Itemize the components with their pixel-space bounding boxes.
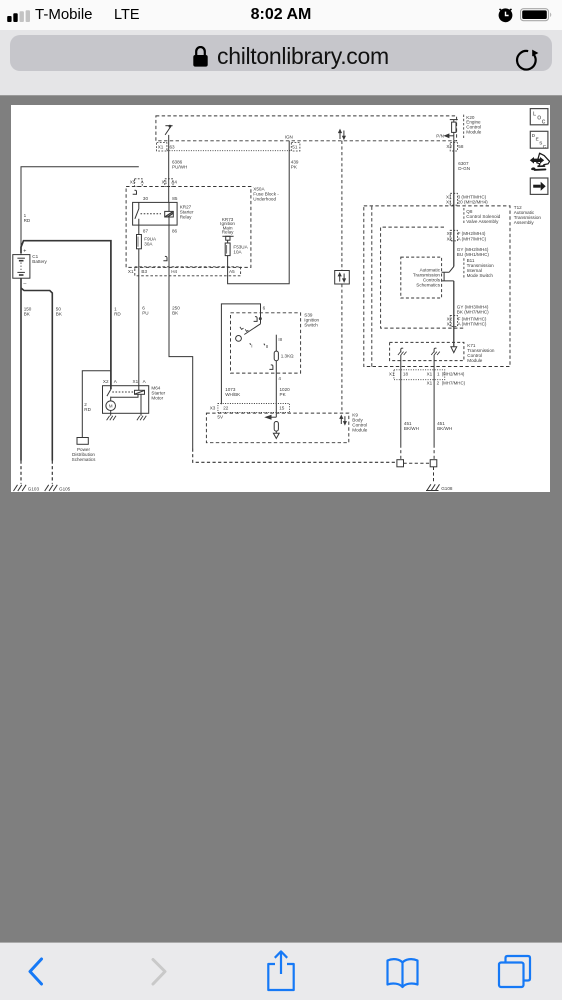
svg-text:G105: G105 — [59, 487, 71, 492]
dashed wire splice to ground G108 — [433, 467, 435, 482]
svg-text:Battery: Battery — [32, 259, 47, 264]
wire 451 BK/WH left — [400, 355, 402, 445]
svg-text:X1: X1 — [446, 194, 452, 199]
svg-text:Schematics: Schematics — [416, 283, 440, 288]
svg-text:4: 4 — [278, 376, 281, 381]
BCM signal arrow on 1020 PK — [266, 415, 277, 419]
svg-text:Mode Switch: Mode Switch — [467, 273, 494, 278]
fuse F53UA — [225, 240, 230, 255]
serial data arrows in junction box — [338, 273, 345, 282]
labels connector X1 18 X1 1 2 — [389, 371, 466, 385]
label S39 Ignition Switch — [304, 313, 319, 328]
svg-text:RD: RD — [84, 407, 91, 412]
content — [0, 0, 562, 1]
ground G108 — [426, 484, 440, 490]
svg-text:H4: H4 — [171, 269, 177, 274]
svg-text:Relay: Relay — [180, 214, 192, 219]
svg-text:63: 63 — [170, 144, 176, 149]
mode switch B11 — [442, 267, 454, 281]
svg-text:BK: BK — [172, 311, 179, 316]
wire dashed to G105 — [51, 461, 53, 484]
label 6307 D-GN — [458, 161, 470, 171]
K71 internal ground right — [431, 348, 440, 355]
ECM internal fuse to pin 58 — [450, 120, 458, 141]
svg-text:Module: Module — [467, 358, 483, 363]
serial data junction box — [335, 271, 350, 285]
M64 solenoid contact wire — [111, 394, 138, 397]
svg-text:BK (MH7/MHC): BK (MH7/MHC) — [457, 309, 489, 314]
label 1 RD battery to starter — [114, 307, 121, 317]
svg-text:X1: X1 — [158, 144, 164, 149]
relay KR73 coil symbol — [222, 236, 233, 240]
svg-text:Motor: Motor — [151, 396, 163, 401]
svg-text:X2: X2 — [447, 236, 453, 241]
svg-text:Underhood: Underhood — [253, 196, 276, 201]
serial data arrows inside ECM — [339, 130, 346, 139]
svg-text:2: 2 — [437, 381, 440, 386]
svg-text:PU/WH: PU/WH — [172, 165, 187, 170]
svg-text:18: 18 — [403, 372, 409, 377]
wire 451 right dashed — [433, 445, 435, 460]
svg-text:5V: 5V — [217, 415, 224, 420]
svg-text:+: + — [23, 248, 26, 254]
connector pin X5:A hook — [133, 190, 137, 194]
BCM internal termination arrow — [273, 431, 279, 438]
BCM internal resistor — [274, 422, 278, 432]
relay KR27 coil pins 85 86 — [168, 202, 170, 225]
svg-text:X1: X1 — [133, 379, 139, 384]
connector pin 51 dashed box — [291, 143, 300, 151]
labels relay KR27 pins — [143, 196, 178, 234]
K71 transmission control module dashed box — [390, 342, 464, 360]
connector strip below K71 dotted — [394, 370, 445, 380]
svg-text:F (MH2/MH4): F (MH2/MH4) — [458, 231, 486, 236]
svg-text:BK: BK — [56, 312, 63, 317]
labels connector X2 F A lower — [447, 316, 487, 326]
connector X2 F/A upper pin dashed box — [450, 230, 457, 241]
url bar — [0, 30, 562, 96]
T12 inner boundary line — [371, 207, 373, 367]
svg-text:22: 22 — [223, 406, 229, 411]
svg-text:Module: Module — [352, 428, 368, 433]
K9 body control module dashed box — [206, 413, 348, 443]
svg-text:WH/BK: WH/BK — [225, 392, 241, 397]
labels GY BU wires — [457, 247, 490, 257]
label C1 Battery — [32, 254, 47, 264]
svg-text:G103: G103 — [28, 487, 40, 492]
svg-text:RD: RD — [114, 312, 121, 317]
wire 1073 WH/BK BCM to S39 pin 6 — [221, 304, 260, 404]
svg-text:II: II — [266, 344, 269, 349]
P/N signal arrow — [445, 134, 454, 137]
svg-text:IGN: IGN — [285, 135, 293, 140]
S39 pin 4 hook — [269, 365, 273, 370]
connector X5 A pin dashed box — [135, 179, 143, 187]
M64 dashed link — [112, 391, 134, 393]
svg-text:A (MH7/MHC): A (MH7/MHC) — [458, 236, 487, 241]
S39 switch blade — [244, 324, 260, 335]
label 6386 PU/WH — [172, 160, 187, 170]
viewer trace icon — [530, 153, 550, 170]
S39 switch rotor circle — [236, 336, 242, 342]
svg-text:Relay: Relay — [222, 230, 234, 235]
svg-text:X2: X2 — [103, 379, 109, 384]
svg-text:87: 87 — [143, 229, 149, 234]
labels connector X2 F A upper — [447, 231, 487, 241]
svg-text:A5: A5 — [229, 269, 235, 274]
viewer button DESC — [530, 131, 548, 149]
svg-text:X1: X1 — [162, 179, 168, 184]
svg-text:86: 86 — [172, 229, 178, 234]
label 50 BK — [56, 307, 63, 317]
svg-text:X1: X1 — [427, 372, 433, 377]
labels 451 BK/WH left — [404, 421, 419, 431]
svg-text:I: I — [251, 344, 252, 349]
toolbar — [0, 942, 562, 1000]
labels connector X1 63 — [158, 144, 175, 149]
connector strip X1 B3 H4 A5 — [135, 267, 241, 276]
wire 2 RD to power distribution — [82, 371, 111, 438]
svg-text:M: M — [109, 404, 113, 409]
splice box right — [430, 460, 437, 467]
svg-text:PU: PU — [142, 311, 148, 316]
label wire 1 RD battery to fuse block — [24, 213, 31, 223]
connector X1 3/20 pin dashed box — [450, 193, 457, 205]
svg-text:Schematics: Schematics — [72, 457, 96, 462]
relay KR27 coil link dashed — [141, 213, 162, 215]
K71 internal ground left — [398, 348, 407, 355]
svg-text:X2: X2 — [447, 322, 453, 327]
label 1073 WH/BK — [225, 387, 241, 397]
svg-text:BU (MH1/MHC): BU (MH1/MHC) — [457, 252, 490, 257]
connector X1 strip dotted — [167, 150, 291, 152]
labels BCM connector X3 22 15 — [210, 406, 285, 411]
off-page marker power distribution — [77, 438, 88, 445]
svg-text:1.3KΩ: 1.3KΩ — [281, 354, 294, 359]
svg-text:Switch: Switch — [304, 323, 318, 328]
T12 transmission assembly dashed box — [364, 206, 510, 367]
status bar — [0, 0, 562, 30]
svg-text:F (MHT/MHC): F (MHT/MHC) — [458, 316, 487, 321]
labels 451 BK/WH right — [437, 421, 452, 431]
svg-text:6: 6 — [263, 305, 266, 310]
svg-text:X3: X3 — [210, 406, 216, 411]
starter motor M64 box — [103, 386, 149, 414]
labels connector X2 58 — [446, 144, 463, 149]
svg-text:Module: Module — [466, 129, 482, 134]
wire 451 left dashed — [400, 445, 402, 460]
S39 position ticks — [250, 343, 265, 345]
M64 motor circle — [106, 397, 116, 411]
svg-text:1: 1 — [437, 372, 440, 377]
wire 6386 PU/WH ECM 63 to relay 85 — [168, 135, 170, 203]
BCM serial arrows — [340, 416, 346, 425]
svg-text:30: 30 — [143, 196, 149, 201]
labels starter motor pins X2 A X1 A — [103, 379, 147, 384]
label K9 Body Control Module — [352, 413, 368, 433]
S39 position chevrons — [240, 327, 249, 332]
serial data dashed wire lower — [341, 284, 343, 413]
label K71 Transmission Control Module — [467, 343, 495, 363]
svg-text:X1: X1 — [128, 269, 134, 274]
connector X2 F/A lower pin dashed box — [450, 315, 457, 326]
svg-text:10A: 10A — [233, 250, 242, 255]
svg-text:X2: X2 — [447, 316, 453, 321]
svg-text:Assembly: Assembly — [514, 220, 535, 225]
wire battery negative to ground G103 — [20, 278, 22, 460]
svg-text:X1: X1 — [389, 372, 395, 377]
label K20 Engine Control Module — [466, 115, 482, 134]
svg-text:L: L — [533, 111, 536, 117]
svg-text:G108: G108 — [441, 486, 453, 491]
relay KR27 box — [133, 202, 178, 225]
label B11 Transmission Internal Mode Switch — [467, 258, 495, 278]
labels connector X1 3 20 — [446, 194, 488, 204]
labels connector X1 A4 — [162, 179, 178, 184]
label T12 Automatic Transmission Assembly — [514, 205, 542, 225]
svg-text:A (MHT/MHC): A (MHT/MHC) — [458, 322, 487, 327]
svg-text:Valve Assembly: Valve Assembly — [466, 219, 499, 224]
label automatic transmission controls schematics — [413, 268, 441, 288]
connector X1 A4 pin dashed box — [165, 179, 173, 187]
automatic transmission controls schematics dashed box — [401, 257, 442, 298]
viewer button next arrow — [530, 178, 548, 194]
K20 label tick — [463, 115, 465, 140]
wire battery negative branch to G105 — [21, 288, 52, 461]
Q8 control solenoid valve assembly dashed box — [381, 227, 464, 328]
battery C1 — [13, 255, 30, 279]
svg-text:P/N: P/N — [436, 134, 444, 139]
label KR73 Ignition Main Relay — [220, 217, 235, 235]
svg-text:BK/WH: BK/WH — [404, 426, 419, 431]
label 439 PK — [291, 160, 299, 170]
wire 250 BK dashed to bus — [193, 449, 397, 463]
labels connector X5 A — [130, 179, 145, 184]
label 150 BK — [24, 307, 32, 317]
svg-text:BK/WH: BK/WH — [437, 426, 452, 431]
svg-text:A4: A4 — [171, 179, 177, 184]
label M64 Starter Motor — [151, 386, 165, 401]
svg-text:58: 58 — [458, 144, 464, 149]
wire resistor to pin 4 — [275, 361, 277, 418]
label 2 RD — [84, 402, 91, 412]
svg-text:15: 15 — [279, 406, 285, 411]
wire 6 PU fuse to starter solenoid — [138, 249, 140, 390]
svg-text:PK: PK — [291, 165, 298, 170]
svg-text:85: 85 — [172, 196, 178, 201]
connector X1 pin 63 dashed box — [157, 143, 167, 151]
label Q8 Control Solenoid Valve Assembly — [466, 209, 500, 224]
label 250 BK — [172, 306, 180, 316]
ground G103 — [14, 485, 27, 491]
wire battery positive to starter motor — [21, 241, 111, 390]
label F9UA 30A — [144, 236, 157, 246]
svg-text:30A: 30A — [144, 241, 153, 246]
labels GY BK wires lower — [457, 304, 489, 314]
ground below solenoid — [137, 416, 146, 421]
wire position III to resistor — [275, 335, 277, 351]
wire 439 PK ignition feed to KR73 — [228, 141, 290, 284]
svg-text:III: III — [278, 337, 282, 342]
label F53UA 10A — [233, 245, 248, 255]
svg-text:B3: B3 — [141, 269, 147, 274]
ground G105 — [45, 485, 58, 491]
hook below relay pin 86 — [163, 256, 167, 260]
svg-text:X5: X5 — [130, 179, 136, 184]
wire dashed to G103 — [20, 461, 22, 484]
serial data dashed wire upper — [341, 141, 343, 271]
wire 451 BK/WH right — [433, 355, 435, 445]
B11 label tick — [463, 258, 465, 277]
splice box left — [397, 460, 404, 467]
svg-text:20 (MH2/MH4): 20 (MH2/MH4) — [458, 200, 489, 205]
M64 contact blade — [107, 389, 111, 396]
Q8 label tick — [463, 208, 465, 224]
battery plus minus — [23, 248, 26, 286]
wire 250 BK relay 86 to ground bus — [169, 225, 193, 448]
arrow into K71 — [451, 347, 457, 353]
wire mode switch to K71 — [453, 281, 455, 347]
M64 coil to ground — [140, 394, 142, 415]
svg-text:51: 51 — [292, 144, 298, 149]
ground bus between splices — [404, 462, 431, 464]
label X50A Fuse Block Underhood — [253, 186, 279, 201]
svg-text:(MH7/MHC): (MH7/MHC) — [442, 381, 466, 386]
K20 engine control module dashed box — [156, 116, 457, 141]
fuse F9UA — [137, 225, 142, 249]
labels ignition positions I II III — [251, 337, 282, 349]
S39 ignition switch dashed box — [231, 313, 301, 373]
relay KR27 coil — [165, 211, 174, 217]
svg-text:PK: PK — [280, 392, 287, 397]
label 1020 PK — [280, 387, 291, 397]
BCM connector strip dotted — [218, 404, 290, 413]
resistor 1.3K — [274, 351, 278, 361]
M64 motor to ground — [110, 411, 112, 416]
svg-text:X1: X1 — [446, 200, 452, 205]
svg-text:RD: RD — [24, 218, 31, 223]
wire battery positive to fuse block X5:A — [21, 167, 139, 255]
svg-text:C: C — [542, 120, 546, 126]
svg-text:X2: X2 — [446, 144, 452, 149]
fuse block X50A dashed box — [126, 187, 251, 268]
label KR27 Starter Relay — [180, 204, 194, 219]
svg-text:3 (MHT/MHC): 3 (MHT/MHC) — [458, 194, 487, 199]
ground below motor — [107, 416, 116, 421]
svg-text:D-GN: D-GN — [458, 166, 470, 171]
svg-text:BK: BK — [24, 312, 31, 317]
ignition crank contact inside K20 — [165, 125, 173, 135]
svg-text:(MH2/MH4): (MH2/MH4) — [442, 371, 465, 376]
label power distribution schematics — [72, 447, 96, 462]
svg-text:X1: X1 — [427, 381, 433, 386]
S39 pin 6 hook — [254, 317, 262, 322]
M64 solenoid coil — [135, 390, 145, 394]
svg-text:X2: X2 — [447, 231, 453, 236]
connector X2 58 pin dashed box — [450, 143, 457, 151]
viewer button LOC — [530, 109, 548, 126]
label 6 PU — [142, 306, 148, 316]
labels connector X1 B3 H4 A5 — [128, 269, 235, 274]
svg-text:O: O — [537, 116, 541, 122]
relay KR27 contact — [135, 202, 139, 225]
svg-text:–: – — [23, 280, 26, 286]
wire 6307 D-GN pin 58 to mode switch — [453, 141, 455, 267]
